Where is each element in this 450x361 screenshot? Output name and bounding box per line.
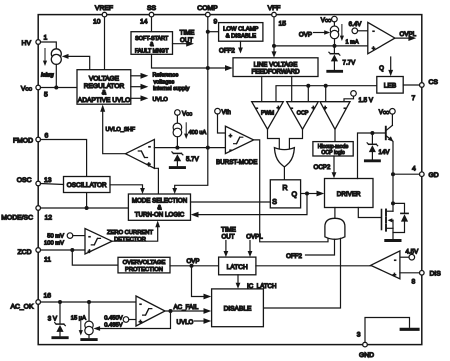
wire control arrow into Ichrg source from regulator — [62, 54, 90, 70]
svg-text:LATCH: LATCH — [227, 264, 248, 271]
pin VREF 10 — [93, 5, 113, 26]
pin GD 4 — [412, 166, 439, 180]
pin ZCD 11 — [18, 248, 52, 264]
svg-text:3: 3 — [357, 332, 361, 339]
svg-text:+: + — [277, 106, 280, 112]
svg-text:&: & — [150, 42, 154, 48]
svg-text:+: + — [372, 46, 375, 52]
block DRIVER — [325, 179, 374, 208]
block SOFT-START & FAULT MNGT — [131, 32, 173, 55]
svg-text:LINE VOLTAGE: LINE VOLTAGE — [254, 61, 298, 68]
svg-text:+: + — [229, 134, 232, 140]
svg-text:OVP: OVP — [186, 258, 199, 265]
wire to OCP plus input — [307, 86, 309, 102]
svg-text:12: 12 — [45, 215, 53, 222]
op-amp OVP latch comparator — [368, 22, 395, 53]
wire to OCP2 input — [325, 86, 327, 102]
pin HV 1 — [22, 35, 48, 47]
svg-text:-: - — [230, 148, 232, 154]
wire OSC pin to oscillator — [41, 184, 64, 185]
comparator ZERO CURRENT DETECTOR — [85, 229, 153, 256]
svg-text:15 µA: 15 µA — [71, 315, 86, 321]
threshold bubble Vth — [215, 108, 232, 133]
svg-text:HV: HV — [22, 40, 32, 47]
wire PWM output to OR gate — [268, 129, 280, 149]
svg-text:-: - — [256, 106, 258, 112]
VCC bubble for OVP source — [321, 16, 337, 24]
node FMOD/mode junction — [85, 206, 89, 210]
svg-text:1: 1 — [44, 35, 48, 42]
pin MODE/SC 12 — [1, 206, 52, 222]
svg-text:VOLTAGE: VOLTAGE — [89, 75, 120, 82]
wire ZCD input — [41, 249, 86, 251]
op-amp UVLO comparator (points left) — [126, 139, 155, 168]
pin OSC 13 — [17, 177, 52, 186]
svg-text:-: - — [291, 106, 293, 112]
svg-text:OUT: OUT — [180, 37, 193, 44]
svg-text:DETECTOR: DETECTOR — [114, 237, 146, 243]
wire ZCD to overvoltage protection — [72, 250, 118, 265]
signal OCP2 arrow to driver — [314, 156, 337, 178]
svg-text:14: 14 — [140, 19, 148, 26]
svg-text:VCC: VCC — [321, 17, 331, 24]
VCC bubble for output transistor — [379, 109, 395, 117]
svg-text:OUT: OUT — [221, 234, 234, 241]
node OVP rail junction — [333, 44, 337, 48]
svg-text:VCC: VCC — [182, 111, 192, 118]
block LINE VOLTAGE FEEDFORWARD — [233, 58, 318, 77]
wire driver output to MOSFET gate — [358, 208, 380, 218]
svg-text:0.485V: 0.485V — [104, 322, 123, 328]
svg-text:VCC: VCC — [21, 85, 33, 92]
ground chassis bar — [401, 328, 418, 331]
svg-text:OVP: OVP — [299, 32, 312, 39]
svg-text:+: + — [324, 106, 327, 112]
node 15uA junction — [87, 300, 91, 304]
signal OFF2 arrow from low clamp — [219, 41, 243, 54]
signal Q gating LEB — [379, 57, 393, 76]
svg-text:Ichrg: Ichrg — [41, 73, 55, 79]
wire HV to startup current source — [41, 42, 57, 49]
wire OVP branch arrow to disable — [192, 266, 212, 300]
wire OVP to latch — [170, 265, 219, 267]
node drain/diode junction — [391, 201, 395, 205]
svg-text:10: 10 — [93, 19, 101, 26]
svg-text:MODE SELECTION: MODE SELECTION — [132, 197, 187, 204]
wire to GD pin — [393, 173, 420, 175]
zener diode 3V — [48, 302, 67, 338]
svg-text:LEB: LEB — [384, 83, 397, 90]
node CS rail to OCP2 — [324, 84, 328, 88]
pin AC_OK 16 — [10, 293, 51, 311]
svg-text:-: - — [394, 258, 396, 264]
threshold bubble 6.4V — [349, 21, 368, 34]
arrow Q to driver — [307, 191, 324, 197]
svg-text:OFF2: OFF2 — [286, 253, 302, 260]
svg-text:11: 11 — [44, 257, 51, 264]
svg-text:UVLO_SHF: UVLO_SHF — [106, 127, 136, 133]
svg-text:6.4V: 6.4V — [349, 21, 363, 28]
svg-text:UVLO: UVLO — [177, 319, 194, 326]
pin VCC 5 — [21, 85, 48, 98]
svg-text:-: - — [89, 234, 91, 240]
svg-text:R: R — [282, 183, 287, 192]
svg-text:4: 4 — [412, 166, 416, 173]
wire soft-start bottom to feedforward input — [152, 54, 208, 68]
svg-text:13: 13 — [44, 177, 52, 184]
svg-text:voltages: voltages — [154, 80, 175, 86]
svg-text:FEEDFORWARD: FEEDFORWARD — [251, 69, 300, 76]
arrow into line voltage feedforward — [208, 65, 233, 71]
signal OVPL arrow into latch — [246, 234, 263, 258]
svg-text:9: 9 — [214, 19, 218, 26]
svg-text:GND: GND — [359, 352, 374, 359]
node COMP/soft-start junction — [206, 66, 210, 70]
svg-text:Q: Q — [379, 65, 384, 72]
signal OVP arrow into source — [299, 30, 330, 38]
svg-text:+: + — [147, 163, 151, 169]
svg-text:ZERO CURRENT: ZERO CURRENT — [107, 230, 154, 236]
current source 400uA — [173, 115, 182, 147]
block LATCH — [219, 257, 256, 275]
node 400uA/zener tap — [175, 146, 179, 150]
signal IC_LATCH arrow latch to disable — [236, 275, 277, 290]
border frame — [38, 15, 422, 345]
svg-text:50 mV: 50 mV — [47, 234, 64, 240]
svg-text:VFF: VFF — [268, 5, 281, 12]
svg-text:PROTECTION: PROTECTION — [125, 267, 163, 273]
signal OVPL output arrow — [395, 31, 417, 41]
pin FMOD 6 — [13, 133, 49, 145]
svg-text:3 V: 3 V — [48, 316, 58, 323]
svg-text:+: + — [393, 273, 396, 279]
wire VFF vertical with arrow into feedforward — [272, 17, 277, 58]
svg-text:&: & — [102, 90, 107, 97]
svg-text:UVLO: UVLO — [153, 97, 169, 103]
svg-text:LOW CLAMP: LOW CLAMP — [223, 27, 258, 33]
signal TIME OUT arrow into latch — [221, 227, 236, 258]
svg-text:PWM: PWM — [261, 111, 275, 117]
block OSCILLATOR — [64, 177, 111, 193]
wire DIS pin to comparator — [400, 272, 420, 274]
svg-text:5.7V: 5.7V — [186, 156, 200, 163]
comparator PWM — [252, 102, 284, 130]
svg-text:OVPL: OVPL — [400, 31, 417, 38]
svg-text:1 mA: 1 mA — [346, 40, 359, 46]
svg-text:-: - — [140, 302, 142, 308]
svg-text:GD: GD — [429, 172, 439, 179]
transistor M1 power MOSFET — [382, 210, 394, 239]
threshold bubble 0.450V/0.485V — [104, 315, 136, 328]
comparator OCP2 (hiccup) — [320, 102, 350, 130]
wire COMP vertical — [175, 17, 208, 189]
wire current source to VCC rail — [55, 64, 57, 87]
svg-text:Internal supply: Internal supply — [153, 86, 190, 92]
wire Q feedback to turn-on logic — [191, 194, 307, 218]
wire latch to DIS comparator output — [256, 265, 371, 267]
node 3V junction — [58, 300, 62, 304]
wire OCP2 to hiccup logic — [334, 129, 336, 141]
wire VFF/OVP node rail — [274, 45, 368, 47]
block Hiccup-mode OCP logic — [313, 142, 353, 157]
wire VREF vertical — [104, 17, 106, 70]
wire COMP to low clamp — [208, 31, 219, 33]
svg-text:Vth: Vth — [222, 109, 232, 116]
output arrow Reference voltages — [131, 73, 179, 86]
wire disable to driver gate — [263, 238, 340, 308]
svg-text:VCC: VCC — [379, 109, 389, 116]
pin SS 14 — [140, 5, 157, 26]
block DISABLE — [212, 289, 264, 327]
VCC supply bubble for 400uA source — [175, 110, 193, 118]
block VOLTAGE REGULATOR & ADAPTIVE UVLO — [77, 70, 131, 105]
wire VCC to regulator — [41, 87, 78, 89]
svg-text:CS: CS — [429, 79, 439, 86]
svg-text:+: + — [139, 320, 142, 326]
svg-text:OCP logic: OCP logic — [321, 150, 345, 156]
node COMP line junction — [206, 146, 210, 150]
wire S input from turn-on logic — [191, 201, 271, 203]
svg-text:Reference: Reference — [153, 73, 179, 79]
svg-text:AC_OK: AC_OK — [10, 303, 34, 310]
wire feedforward to OCP input — [291, 77, 293, 102]
gate OR (PWM/OCP merge, points down) — [274, 148, 294, 167]
wire SS vertical — [151, 17, 153, 32]
node OVP junction — [186, 258, 199, 268]
svg-text:DIS: DIS — [430, 271, 442, 278]
output arrow UVLO — [131, 95, 169, 102]
svg-text:TIME: TIME — [221, 227, 236, 234]
output arrow Internal supply — [131, 84, 190, 92]
svg-text:14V: 14V — [379, 149, 391, 156]
block OVERVOLTAGE PROTECTION — [118, 257, 170, 273]
svg-text:OFF2: OFF2 — [219, 48, 235, 55]
comparator DIS (points left) — [371, 251, 400, 279]
svg-text:BURST-MODE: BURST-MODE — [216, 159, 257, 166]
transistor Q1 (NPN clamp) — [386, 114, 394, 142]
wire oscillator output arrow into mode selection — [110, 185, 145, 194]
flip-flop R/S — [270, 180, 300, 208]
svg-text:FMOD: FMOD — [13, 137, 33, 144]
node AC_FAIL junction — [169, 309, 173, 313]
svg-text:-: - — [344, 106, 346, 112]
svg-text:VREF: VREF — [95, 5, 113, 12]
wire hysteresis control into 15uA source — [93, 311, 170, 331]
svg-text:7.7V: 7.7V — [343, 60, 357, 67]
wire transistor base to driver — [358, 133, 385, 179]
svg-text:DRIVER: DRIVER — [337, 191, 361, 198]
wire gate output to driver — [334, 208, 336, 219]
node GD junction — [391, 172, 395, 176]
wire feedforward to PWM input — [261, 77, 263, 102]
node ZCD junction — [70, 248, 74, 252]
wire GND pin to chassis — [365, 318, 410, 343]
svg-text:OCP2: OCP2 — [314, 164, 331, 171]
svg-text:7: 7 — [412, 95, 416, 102]
wire 5.7V reference rail — [154, 147, 225, 149]
zener diode 7.7V — [328, 46, 356, 71]
block MODE SELECTION & TURN-ON LOGIC — [128, 194, 190, 220]
block LOW CLAMP & DISABLE — [219, 23, 263, 42]
signal AC_FAIL arrow to disable — [165, 304, 211, 314]
svg-text:AC_FAIL: AC_FAIL — [174, 304, 199, 311]
wire OFF2 into driver gate — [286, 239, 334, 260]
diode body (free-wheel) — [393, 203, 408, 232]
svg-text:OVPL: OVPL — [246, 234, 263, 241]
wire burst-mode output routed to driver gate — [254, 140, 328, 242]
current source Ichrg (startup) — [51, 49, 61, 65]
svg-text:-: - — [373, 29, 375, 35]
svg-text:6: 6 — [45, 133, 49, 140]
wire emitter to GD node — [392, 142, 394, 212]
svg-text:+: + — [88, 249, 91, 255]
svg-text:100 mV: 100 mV — [44, 241, 64, 247]
svg-text:DISABLE: DISABLE — [224, 305, 252, 312]
svg-text:OSCILLATOR: OSCILLATOR — [67, 182, 107, 189]
ground MOSFET source — [386, 239, 400, 242]
pin COMP 9 — [197, 5, 218, 26]
block LEB — [377, 77, 403, 94]
signal UVLO arrow to disable — [177, 318, 212, 326]
svg-text:-: - — [149, 145, 151, 151]
current source 15uA — [71, 302, 96, 340]
pin GND 3 — [357, 332, 374, 360]
svg-text:5: 5 — [44, 92, 48, 99]
comparator BURST-MODE — [216, 126, 257, 166]
1.5 V threshold bubble — [344, 91, 374, 104]
svg-text:& DISABLE: & DISABLE — [226, 34, 257, 40]
svg-text:ADAPTIVE UVLO: ADAPTIVE UVLO — [78, 97, 130, 104]
current source 1mA (OVP pull-up) — [330, 22, 338, 46]
wire comparator bottom to mode selection — [154, 168, 158, 194]
node CS rail to OCP — [306, 84, 310, 88]
pin DIS 8 — [412, 271, 442, 286]
threshold bubble 4.5V — [400, 249, 419, 261]
node COMP to low clamp — [206, 30, 210, 34]
wire OR gate to flip-flop R — [283, 167, 285, 180]
gate AND (driver enable, points up) — [325, 218, 345, 239]
zener diode 14V — [365, 133, 390, 161]
svg-text:16: 16 — [44, 293, 52, 300]
svg-text:15: 15 — [279, 21, 287, 28]
svg-text:400 uA: 400 uA — [189, 130, 207, 136]
svg-text:OCP: OCP — [297, 111, 309, 117]
wire AC_OK line — [41, 301, 137, 303]
pin CS 7 — [412, 79, 439, 102]
pin VFF 15 — [268, 5, 287, 28]
node base/zener junction — [370, 131, 374, 135]
node VCC/Ichrg junction — [54, 86, 58, 90]
1 mA annotation arrow — [340, 25, 359, 46]
svg-text:SS: SS — [147, 5, 157, 12]
svg-text:OVERVOLTAGE: OVERVOLTAGE — [123, 260, 166, 266]
svg-text:+: + — [312, 106, 315, 112]
wire OCP output to OR gate — [289, 129, 302, 149]
svg-text:8: 8 — [412, 279, 416, 286]
svg-text:SOFT-START: SOFT-START — [135, 36, 169, 42]
svg-text:Q: Q — [292, 190, 298, 199]
svg-text:MODE/SC: MODE/SC — [1, 215, 33, 222]
wire FMOD down to mode line — [41, 140, 87, 209]
wire LEB to CS pin — [403, 84, 419, 86]
wire Q output — [301, 193, 307, 195]
wire LEB current-sense rail — [276, 86, 377, 102]
signal TIME OUT from soft-start — [173, 30, 195, 47]
svg-text:FAULT MNGT: FAULT MNGT — [135, 48, 169, 54]
svg-text:OSC: OSC — [17, 177, 32, 184]
svg-text:COMP: COMP — [197, 5, 218, 12]
svg-text:ZCD: ZCD — [18, 249, 32, 256]
wire ZCD output arrow up into turn-on logic — [112, 221, 160, 242]
400 uA annotation arrow — [184, 123, 206, 139]
svg-text:S: S — [272, 197, 277, 206]
svg-text:0.450V: 0.450V — [104, 315, 123, 321]
threshold bubble 50mV/100mV — [44, 233, 85, 247]
comparator OCP — [287, 102, 319, 130]
zener diode 5.7V — [170, 152, 199, 168]
wire MODE/SC to mode selection — [41, 207, 129, 209]
arrow into mode selection top — [172, 188, 177, 194]
svg-text:1.5 V: 1.5 V — [359, 97, 374, 104]
node Q junction — [305, 192, 309, 196]
svg-text:Hiccup-mode: Hiccup-mode — [318, 144, 349, 150]
svg-text:TURN-ON LOGIC: TURN-ON LOGIC — [135, 212, 185, 219]
wire UVLO_SHF from comparator up into regulator — [100, 105, 135, 154]
Ichrg annotation arrow and label — [41, 49, 55, 79]
svg-text:TIME: TIME — [180, 30, 195, 37]
comparator AC_OK (brown-out) — [136, 296, 165, 326]
